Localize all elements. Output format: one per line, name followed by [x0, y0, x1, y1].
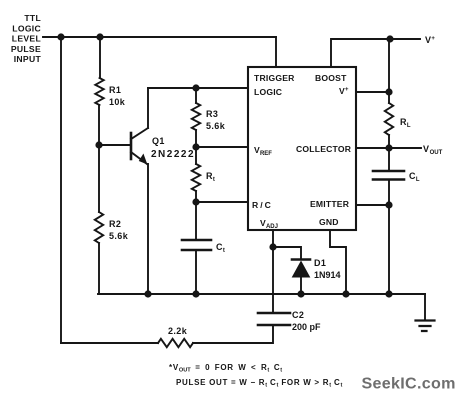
- node C1-rail: [192, 290, 199, 297]
- resistor RL: [385, 103, 393, 135]
- node R3 top: [192, 84, 199, 91]
- wire diode to rail: [300, 277, 302, 294]
- wire VREF pin: [196, 146, 248, 148]
- svg-text:INPUT: INPUT: [14, 54, 42, 64]
- wire 2.2k to C2: [193, 325, 273, 343]
- wire bottom-left to 2.2k: [61, 342, 158, 344]
- wire GND pin jog: [330, 230, 346, 294]
- node GND-rail: [342, 290, 349, 297]
- node V+ pin: [385, 88, 392, 95]
- transistor Q1: [130, 133, 133, 159]
- wire BOOST top: [331, 39, 390, 67]
- svg-text:5.6k: 5.6k: [109, 231, 129, 241]
- node diode-rail: [297, 290, 304, 297]
- wire input horizontal: [43, 36, 276, 38]
- svg-text:1N914: 1N914: [314, 270, 341, 280]
- svg-text:R3: R3: [206, 109, 218, 119]
- node VREF: [192, 143, 199, 150]
- resistor Rt: [192, 164, 200, 191]
- wire CL to rail: [388, 180, 390, 295]
- wire VOUT: [389, 147, 421, 149]
- wire COLLECTOR pin: [356, 147, 389, 149]
- svg-text:2.2k: 2.2k: [168, 326, 188, 336]
- svg-text:LOGIC: LOGIC: [12, 23, 41, 33]
- node right rail: [385, 290, 392, 297]
- svg-text:TRIGGER: TRIGGER: [254, 73, 295, 83]
- svg-text:C2: C2: [292, 310, 304, 320]
- wire TRIGGER top drop: [275, 37, 277, 67]
- svg-text:COLLECTOR: COLLECTOR: [296, 144, 352, 154]
- svg-text:10k: 10k: [109, 97, 126, 107]
- node input B: [96, 33, 103, 40]
- resistor 2.2k: [158, 339, 193, 347]
- svg-text:5.6k: 5.6k: [206, 121, 226, 131]
- wire VADJ pin: [272, 230, 274, 247]
- svg-text:LOGIC: LOGIC: [254, 87, 282, 97]
- svg-text:R1: R1: [109, 85, 121, 95]
- svg-text:R2: R2: [109, 219, 121, 229]
- capacitor C2: [258, 313, 290, 325]
- svg-text:SeekIC.com: SeekIC.com: [362, 375, 456, 393]
- node input A: [57, 33, 64, 40]
- node collector: [385, 144, 392, 151]
- wire V+ pin: [356, 91, 389, 93]
- resistor R1: [99, 37, 101, 78]
- IC pin labels: [252, 73, 352, 230]
- svg-text:200 pF: 200 pF: [292, 322, 321, 332]
- wire left rail: [60, 37, 62, 343]
- svg-text:TTL: TTL: [24, 13, 41, 23]
- node R/C: [192, 198, 199, 205]
- svg-text:PULSE: PULSE: [11, 44, 41, 54]
- node V+ top: [386, 35, 393, 42]
- wire C2 to VADJ node: [272, 247, 274, 313]
- resistor R2: [98, 243, 100, 294]
- capacitor CL: [388, 148, 390, 171]
- wire base: [99, 144, 130, 146]
- IC box U1: [248, 67, 356, 230]
- wire EMITTER pin: [356, 204, 389, 206]
- node emitter-rail: [144, 290, 151, 297]
- svg-text:R/C: R/C: [252, 200, 273, 210]
- capacitor C1: [182, 240, 211, 250]
- svg-text:LEVEL: LEVEL: [12, 34, 41, 44]
- svg-text:2N2222: 2N2222: [151, 149, 195, 160]
- wire to V+: [390, 38, 420, 40]
- wire right vertical top: [388, 39, 390, 103]
- wire LOGIC pin: [148, 87, 248, 89]
- wire C1 to rail: [195, 250, 197, 294]
- diode D1: [292, 258, 310, 261]
- svg-text:EMITTER: EMITTER: [310, 199, 350, 209]
- svg-text:D1: D1: [314, 258, 326, 268]
- svg-text:Q1: Q1: [152, 136, 165, 146]
- wire rail to ground: [424, 294, 426, 320]
- wire R/C pin: [196, 201, 248, 203]
- node VADJ: [269, 243, 276, 250]
- node emitter pin: [385, 201, 392, 208]
- svg-text:BOOST: BOOST: [315, 73, 347, 83]
- wire Rt to C1: [195, 202, 197, 240]
- resistor R3: [195, 88, 197, 103]
- svg-text:GND: GND: [319, 217, 339, 227]
- ground: [416, 321, 435, 332]
- node Q1 base: [95, 141, 102, 148]
- label TTL LOGIC LEVEL PULSE INPUT: [11, 13, 42, 64]
- wire bottom rail: [98, 293, 425, 295]
- wire VADJ to diode: [273, 247, 301, 259]
